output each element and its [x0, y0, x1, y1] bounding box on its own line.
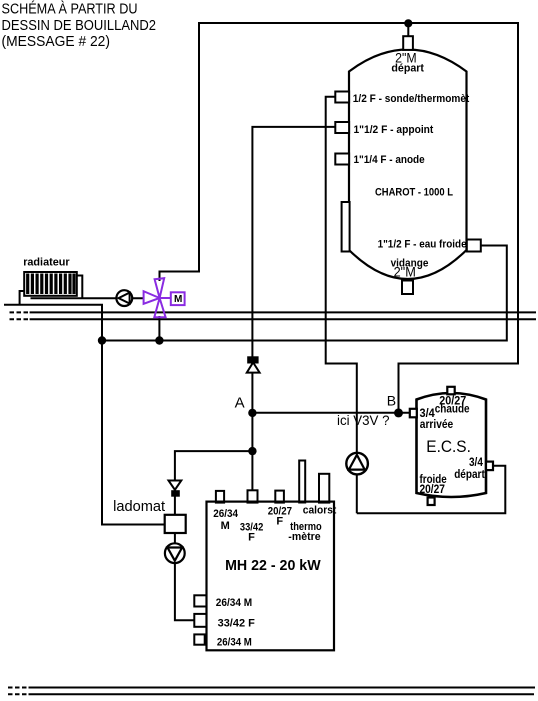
- svg-text:26/34 M: 26/34 M: [216, 597, 252, 609]
- svg-text:26/34 M: 26/34 M: [217, 637, 252, 649]
- svg-text:départ: départ: [454, 467, 485, 481]
- svg-text:1"1/4 F - anode: 1"1/4 F - anode: [354, 154, 425, 166]
- svg-text:chaude: chaude: [435, 402, 470, 416]
- svg-text:1/2 F - sonde/thermomèt: 1/2 F - sonde/thermomèt: [353, 93, 470, 105]
- svg-text:2"M: 2"M: [394, 264, 416, 280]
- svg-text:arrivée: arrivée: [420, 417, 454, 431]
- svg-text:CHAROT - 1000 L: CHAROT - 1000 L: [375, 186, 453, 198]
- svg-text:départ: départ: [391, 63, 424, 75]
- svg-text:26/34: 26/34: [213, 508, 239, 520]
- svg-text:calorst: calorst: [303, 504, 337, 516]
- svg-text:20/27: 20/27: [420, 482, 446, 496]
- svg-text:E.C.S.: E.C.S.: [426, 438, 471, 456]
- svg-text:SCHÉMA À PARTIR DU: SCHÉMA À PARTIR DU: [2, 1, 138, 18]
- svg-text:(MESSAGE # 22): (MESSAGE # 22): [2, 34, 111, 50]
- svg-text:-mètre: -mètre: [288, 531, 320, 543]
- svg-text:F: F: [276, 515, 283, 527]
- svg-text:DESSIN DE BOUILLAND2: DESSIN DE BOUILLAND2: [2, 18, 157, 34]
- svg-text:A: A: [235, 395, 245, 412]
- svg-text:33/42 F: 33/42 F: [218, 617, 255, 629]
- svg-text:ici V3V ?: ici V3V ?: [337, 413, 390, 428]
- svg-text:1"1/2 F - appoint: 1"1/2 F - appoint: [354, 124, 434, 136]
- svg-text:MH 22 - 20 kW: MH 22 - 20 kW: [225, 558, 321, 574]
- svg-text:M: M: [221, 520, 230, 532]
- svg-text:B: B: [387, 392, 396, 408]
- svg-text:ladomat: ladomat: [113, 499, 165, 515]
- svg-text:radiateur: radiateur: [23, 256, 70, 268]
- svg-text:1"1/2 F - eau froide: 1"1/2 F - eau froide: [378, 238, 467, 250]
- svg-text:F: F: [248, 531, 255, 543]
- svg-text:M: M: [174, 294, 182, 305]
